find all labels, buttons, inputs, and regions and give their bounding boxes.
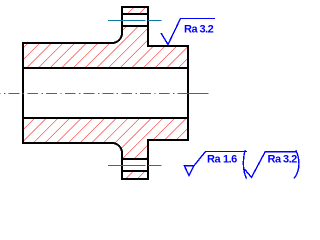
svg-text:Ra: Ra [184, 24, 198, 36]
svg-text:Ra: Ra [268, 154, 282, 166]
svg-text:1.6: 1.6 [223, 154, 237, 166]
svg-text:Ra: Ra [207, 154, 221, 166]
svg-text:3.2: 3.2 [283, 154, 297, 166]
svg-text:3.2: 3.2 [200, 24, 214, 36]
